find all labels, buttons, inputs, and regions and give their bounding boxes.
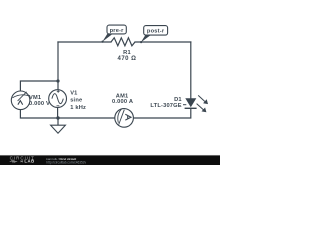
ground <box>51 125 66 133</box>
node junction dot at riser branch <box>56 79 59 82</box>
diode D1 labels <box>150 97 181 109</box>
node pre-r flag <box>102 25 127 43</box>
node post-r flag <box>140 26 168 44</box>
footer logo diode glyph <box>21 160 23 162</box>
svg-text:pre-r: pre-r <box>110 28 125 34</box>
resistor R1 labels <box>118 50 137 62</box>
svg-text:1 kHz: 1 kHz <box>70 105 86 111</box>
svg-text:0.000 V: 0.000 V <box>29 101 50 107</box>
svg-text:LAB: LAB <box>24 159 34 164</box>
wire branch to VM1 top <box>20 81 58 91</box>
wire riser top wire to V1 top <box>57 42 59 90</box>
wire ground stem <box>57 118 59 125</box>
svg-text:http://circuitlab.com/c46352v: http://circuitlab.com/c46352v <box>46 160 86 164</box>
ammeter AM1 <box>115 109 134 128</box>
wire V1 bottom stub <box>57 108 59 119</box>
svg-text:V1: V1 <box>70 91 77 97</box>
source V1 labels <box>70 91 86 111</box>
svg-text:sine: sine <box>70 98 82 104</box>
wire top right segment <box>135 41 191 43</box>
svg-text:0.000 A: 0.000 A <box>112 99 133 105</box>
resistor R1 <box>111 38 135 46</box>
ammeter AM1 labels <box>112 94 133 106</box>
svg-text:470 Ω: 470 Ω <box>118 56 137 62</box>
svg-text:LTL-307GE: LTL-307GE <box>150 103 181 109</box>
svg-text:post-r: post-r <box>147 29 165 35</box>
wire bottom left segment <box>20 110 115 118</box>
wire right side down to LED <box>190 42 192 98</box>
wire LED cathode to bottom wire <box>133 108 190 118</box>
node junction dot at ground <box>56 116 59 119</box>
source V1 <box>49 90 67 108</box>
voltmeter VM1 labels <box>29 95 50 107</box>
diode D1 light arrows <box>197 95 208 112</box>
wire top left segment <box>58 41 111 43</box>
diode D1 LED <box>183 98 197 108</box>
voltmeter VM1 <box>11 91 30 110</box>
footer logo squiggle <box>10 160 17 162</box>
